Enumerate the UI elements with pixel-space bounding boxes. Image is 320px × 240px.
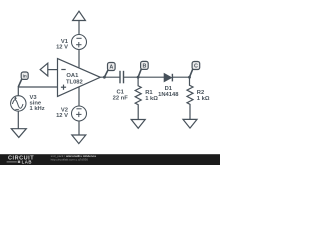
wire V1 to op-amp V+ pin [78, 49, 80, 67]
svg-text:B: B [142, 64, 146, 70]
resistor R2 [187, 77, 193, 119]
ground under V3 [11, 129, 26, 138]
CircuitLab logo [7, 156, 35, 165]
flag B [138, 61, 148, 77]
label C1 [113, 90, 129, 102]
svg-text:A: A [109, 65, 113, 71]
svg-text:http.circuitlab.com.c.q7d936: http.circuitlab.com.c.q7d936 [51, 158, 89, 162]
wire V3 to + input (node in) [18, 87, 57, 96]
svg-text:1N4148: 1N4148 [158, 92, 179, 98]
wire V3 to ground [17, 111, 19, 129]
ground under R1 [131, 120, 145, 129]
junction node B [137, 76, 140, 79]
svg-text:in: in [23, 74, 27, 79]
svg-text:C: C [194, 64, 198, 70]
svg-text:TL082: TL082 [66, 80, 83, 86]
label V2 [56, 108, 68, 119]
watermark bar [0, 154, 220, 165]
ground under R2 [183, 119, 197, 128]
label R2 [197, 90, 210, 102]
svg-text:1 kHz: 1 kHz [30, 106, 45, 112]
wire diode to node C [172, 76, 189, 78]
op-amp OA1 [58, 59, 101, 97]
diode D1 [164, 74, 172, 82]
voltage source V1 [72, 35, 87, 50]
junction node A [103, 76, 106, 79]
flag A [104, 63, 115, 78]
svg-text:22 nF: 22 nF [113, 96, 129, 102]
svg-text:1 kΩ: 1 kΩ [145, 96, 158, 102]
wire op-amp V- pin to V2 [78, 87, 80, 107]
label V3 [30, 95, 45, 112]
label V1 [56, 39, 69, 50]
wire C1 to diode [124, 76, 165, 78]
flag in [18, 72, 28, 87]
wire flag to inverting input [48, 69, 58, 71]
voltage source V2 [72, 106, 87, 121]
svg-text:LAB: LAB [22, 160, 32, 165]
junction node C [188, 76, 191, 79]
flag on inverting input [40, 63, 48, 76]
wire op-amp output to C1 [101, 76, 121, 78]
wire V2 to ground [78, 121, 80, 135]
svg-text:12 V: 12 V [56, 44, 68, 50]
svg-text:12 V: 12 V [56, 113, 68, 119]
power flag VCC [73, 11, 86, 35]
label OA1 TL082 [66, 73, 83, 85]
svg-text:OA1: OA1 [66, 73, 79, 79]
label R1 [145, 90, 158, 102]
flag C [190, 62, 200, 78]
resistor R1 [135, 77, 141, 119]
sine source V3 [11, 96, 26, 111]
watermark text [51, 154, 97, 162]
svg-text:1 kΩ: 1 kΩ [197, 96, 210, 102]
ground under V2 [72, 135, 86, 144]
label D1 1N4148 [158, 86, 179, 98]
capacitor C1 [120, 71, 124, 84]
